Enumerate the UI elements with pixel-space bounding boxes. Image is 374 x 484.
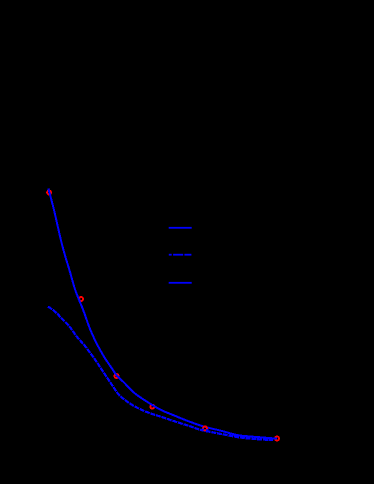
data point marker 4 xyxy=(150,405,154,409)
data point marker 6 xyxy=(275,437,279,441)
legend sample 3: solid line xyxy=(169,282,192,284)
data point marker 1 xyxy=(47,191,51,195)
data point marker 3 xyxy=(115,374,119,378)
data point marker 2 xyxy=(79,297,83,301)
legend sample 2: dashed line xyxy=(169,254,172,256)
dashed line chunks over marker 5 xyxy=(201,428,204,430)
solid blue fitted curve (series 1) xyxy=(48,189,277,439)
data point marker 5 xyxy=(203,426,207,430)
legend sample 1: solid line xyxy=(169,227,192,229)
dashed blue fitted curve (series 2) xyxy=(48,307,273,440)
